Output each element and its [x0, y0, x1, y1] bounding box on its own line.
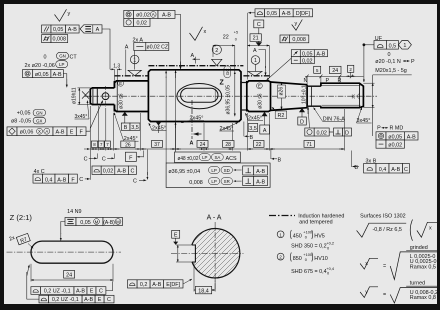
slot centerline [7, 251, 122, 253]
general roughness symbol [357, 223, 407, 237]
ø26 boxed vertical [278, 85, 286, 98]
right end ø20 dim line [363, 82, 374, 84]
datum E box [172, 230, 180, 238]
svg-text:B: B [250, 135, 254, 141]
svg-text:grinded: grinded [410, 245, 428, 251]
svg-text:A-B: A-B [84, 297, 93, 303]
shaft section ø30 right [247, 81, 271, 112]
B undercut marker (middle) [243, 122, 245, 137]
A-A centerlines [214, 222, 216, 291]
svg-text:SHD 675 = 0,4: SHD 675 = 0,4 [291, 269, 327, 275]
svg-text:A-B: A-B [162, 13, 171, 19]
relief groove 1,3 on ø30 left [114, 69, 116, 81]
svg-text:ø20 -0,1 N: ø20 -0,1 N [375, 59, 401, 65]
dim 21 boxed [250, 34, 261, 42]
svg-text:CT: CT [70, 55, 78, 61]
svg-text:+5: +5 [234, 31, 238, 35]
svg-text:SHD 350 = 0,2: SHD 350 = 0,2 [291, 244, 327, 250]
hardening zone chain line middle (zone 2) [148, 65, 243, 67]
svg-text:A: A [96, 27, 100, 33]
R2 fillet label [275, 111, 287, 119]
svg-text:ø36,95 ±0,04: ø36,95 ±0,04 [168, 169, 200, 175]
datum D box + triangle [299, 108, 305, 112]
FCF profile 0,05 A-B D[DF] (top) [255, 9, 265, 17]
slot detail outline [31, 241, 113, 263]
surface symbol y (mid top) [292, 20, 303, 31]
svg-text:A-B: A-B [407, 134, 416, 140]
svg-text:E: E [70, 130, 74, 136]
svg-text:22: 22 [223, 35, 229, 41]
surface symbol x (top middle) [190, 27, 203, 41]
datum C triangle [256, 42, 262, 46]
svg-text:A-B: A-B [391, 167, 400, 173]
datum B box left with triangle [122, 112, 128, 116]
svg-text:ø19h11: ø19h11 [72, 87, 78, 104]
shaft left journal ø19h11 [90, 88, 114, 105]
leader to ø19 journal [63, 74, 66, 87]
leader down to big section [175, 14, 181, 68]
svg-text:R2: R2 [277, 113, 284, 119]
svg-text:3,5: 3,5 [131, 125, 139, 131]
keyway notch outline [192, 245, 196, 262]
orientation plane flag A [80, 25, 102, 33]
svg-text:ø36,95 ±0,05: ø36,95 ±0,05 [225, 85, 231, 115]
svg-text:C: C [107, 297, 111, 303]
svg-text:LP: LP [202, 155, 207, 160]
svg-text:22: 22 [256, 142, 262, 148]
main centerline [84, 95, 377, 97]
svg-text:ø0,02 CZ: ø0,02 CZ [147, 45, 169, 51]
hardening zone chain line left (zone 1) [115, 75, 149, 77]
svg-text:M20x1,5 - 5g: M20x1,5 - 5g [375, 68, 406, 74]
balloon 2 [212, 45, 221, 54]
svg-text:A-B: A-B [76, 289, 85, 295]
dim 24 boxed [330, 66, 342, 73]
svg-text:ø0,05: ø0,05 [35, 72, 49, 78]
svg-text:A-B: A-B [56, 130, 65, 136]
svg-text:E: E [90, 289, 94, 295]
ø19h11 dimension line [78, 88, 80, 105]
svg-text:ø30 s6: ø30 s6 [119, 93, 125, 109]
slot vertical centerline [214, 89, 216, 103]
FCF roundness 0,02 [124, 18, 134, 26]
svg-text:A: A [125, 44, 129, 50]
balloon 1 left [130, 55, 139, 64]
svg-text:SA: SA [214, 155, 220, 160]
note 2 hardness [277, 253, 284, 260]
svg-text:ø30 s6: ø30 s6 [258, 93, 264, 109]
zone triangle middle [212, 59, 222, 65]
svg-text:2: 2 [215, 48, 218, 54]
svg-text:GX: GX [36, 118, 42, 123]
svg-text:0,05: 0,05 [267, 11, 278, 17]
svg-text:850: 850 [293, 256, 302, 262]
extension lines down [89, 106, 91, 180]
svg-text:-0,8 / Rz 6,5: -0,8 / Rz 6,5 [373, 227, 402, 233]
datum C box [254, 20, 264, 28]
shaft section ø30 left [114, 81, 148, 112]
svg-text:x: x [365, 261, 368, 267]
svg-text:x: x [429, 226, 432, 232]
leader from FCF to cross hole [86, 129, 90, 132]
cone 10 deg [271, 82, 308, 110]
svg-text:Surfaces ISO 1302: Surfaces ISO 1302 [360, 214, 406, 220]
svg-text:D: D [345, 130, 349, 136]
svg-text:C: C [102, 156, 106, 162]
svg-text:M: M [95, 219, 99, 224]
svg-text:y: y [365, 290, 368, 296]
svg-text:C: C [99, 289, 103, 295]
svg-text:ø8 -0,05: ø8 -0,05 [11, 119, 31, 125]
svg-text:C: C [257, 22, 261, 28]
svg-text:0: 0 [44, 55, 47, 61]
leader dot and line down [363, 43, 366, 46]
svg-text:and tempered: and tempered [299, 220, 332, 226]
svg-text:D[DF]: D[DF] [296, 11, 311, 17]
svg-text:SD: SD [224, 168, 230, 173]
svg-text:B: B [124, 125, 128, 131]
svg-text:Z: Z [220, 79, 225, 86]
svg-text:0,05: 0,05 [53, 27, 64, 33]
leader to ø30 right [267, 58, 292, 80]
svg-text:24: 24 [332, 68, 338, 74]
undercut groove right of big section (B) [241, 82, 247, 84]
svg-text:14 N9: 14 N9 [67, 209, 81, 215]
ø36,95 dim on big section [234, 72, 236, 117]
svg-text:0,2 UZ -0,1: 0,2 UZ -0,1 [52, 297, 79, 303]
dim 2 boxed [348, 65, 354, 72]
thread M20 body [321, 83, 364, 107]
chamfer X mark at left face [82, 91, 89, 98]
sqrt y equals [360, 287, 378, 298]
svg-text:ø0,06: ø0,06 [20, 130, 34, 136]
svg-text:GN: GN [59, 54, 66, 59]
dim lines at y 45.5 [213, 45, 235, 47]
hardening zone chain line right (zone 1) [243, 75, 270, 77]
leader from flag to shaft [102, 29, 110, 69]
svg-text:3,5: 3,5 [249, 126, 257, 132]
svg-text:ACS: ACS [226, 156, 237, 162]
surface symbol y top-left [55, 9, 67, 21]
FCF profile 0,2 UZ -0,1 A-B E C (row2) [39, 295, 49, 303]
svg-text:A: A [152, 12, 155, 17]
svg-text:A - A: A - A [207, 215, 222, 222]
svg-text:X: X [38, 129, 41, 134]
keyway slot inner [181, 88, 218, 102]
svg-text:71: 71 [306, 142, 312, 148]
datum B box with triangle (left) [156, 122, 162, 126]
svg-text:E: E [174, 233, 178, 239]
svg-text:0,008: 0,008 [292, 37, 306, 43]
leader left to extension line [248, 12, 255, 14]
ø30 s6 (E) label right [257, 83, 263, 89]
A-A circle outline [192, 229, 240, 278]
big parenthesis [410, 220, 412, 241]
keyway width extension + dim [176, 244, 192, 246]
svg-text:y: y [295, 21, 298, 27]
svg-text:0,4: 0,4 [45, 177, 53, 183]
svg-text:0,5: 0,5 [389, 43, 397, 49]
chain dim arrows [84, 148, 344, 150]
svg-text:K: K [352, 95, 356, 101]
svg-text:0: 0 [388, 52, 391, 58]
svg-text:1: 1 [403, 43, 406, 49]
FCF profile 0,02 A-B C [92, 166, 101, 174]
svg-text:M: M [116, 219, 120, 224]
svg-text:0,02: 0,02 [302, 58, 313, 64]
FCF coax ø0,05 A-B / ø0,02 (right) [376, 132, 386, 140]
shaft big section ø48 [148, 70, 241, 122]
dim 24 under slot [30, 264, 32, 282]
svg-text:A: A [263, 128, 267, 134]
dim 18,4 [193, 263, 195, 292]
svg-text:21: 21 [253, 36, 259, 42]
svg-text:C: C [130, 168, 134, 174]
svg-text:LP: LP [211, 168, 216, 173]
svg-text:0,2 UZ -0,1: 0,2 UZ -0,1 [44, 289, 71, 295]
svg-text:ø48 ±0,02: ø48 ±0,02 [178, 156, 199, 162]
svg-text:HV5: HV5 [314, 233, 325, 239]
svg-text:P: P [411, 59, 415, 65]
B marker at note box [271, 158, 277, 160]
svg-text:turned: turned [410, 281, 425, 287]
svg-text:=: = [383, 292, 386, 298]
svg-text:1,3: 1,3 [113, 64, 120, 70]
svg-text:18,4: 18,4 [198, 288, 209, 294]
svg-text:LP: LP [59, 62, 64, 67]
FCF runout 0,05 A-B over 0,02 [291, 50, 300, 57]
svg-text:0,008: 0,008 [53, 37, 67, 43]
FCF flatness-unit 0,008 (mid) [280, 35, 289, 43]
svg-text:ø0,02: ø0,02 [136, 13, 150, 19]
svg-text:26: 26 [125, 142, 131, 148]
svg-text:2x ø20 -0,06: 2x ø20 -0,06 [25, 63, 55, 69]
svg-text:0: 0 [235, 38, 237, 42]
svg-text:450: 450 [293, 233, 302, 239]
FCF concentricity ø0,05 A-B (left) [23, 70, 33, 78]
svg-text:0,02: 0,02 [103, 168, 114, 174]
FCF parallelism 0,05 A-B [42, 25, 51, 33]
svg-text:28: 28 [225, 142, 231, 148]
roughness x symbol in parens [417, 222, 439, 237]
retaining ring groove on ø19 [92, 88, 94, 105]
svg-text:B: B [278, 157, 282, 163]
svg-text:C: C [84, 156, 88, 162]
svg-text:Ramax 0,8: Ramax 0,8 [410, 295, 436, 301]
svg-text:A-B: A-B [256, 169, 265, 175]
FCF coaxiality ø0,02(A) A-B (top center) [124, 10, 134, 18]
datum A box with triangle [262, 112, 268, 116]
sqrt x equals [360, 258, 378, 269]
bottom dimension chain line [90, 148, 344, 150]
svg-text:A-B: A-B [117, 168, 126, 174]
svg-text:0,05: 0,05 [80, 220, 91, 226]
extension line of ø30 right face up [247, 13, 249, 80]
FCF profile 0,2 A-B E[DF] [128, 280, 138, 288]
svg-text:C: C [133, 179, 137, 185]
svg-text:A-B: A-B [256, 180, 265, 186]
svg-text:y: y [68, 11, 71, 17]
svg-text:A-B: A-B [57, 177, 66, 183]
svg-text:R MD: R MD [390, 126, 404, 132]
note box with ø48 / ø36,95 / 0,008 lines [166, 163, 270, 188]
section A-A cut mark [191, 100, 193, 139]
svg-text:E: E [98, 297, 102, 303]
svg-text:A: A [190, 141, 194, 147]
cross hole ø8 [102, 93, 109, 100]
note 1 hardness [277, 231, 284, 238]
FCF profile 0,2 UZ -0,1 A-B E C (row1) [31, 287, 41, 295]
svg-text:Ramax 0,5: Ramax 0,5 [410, 264, 436, 270]
F box mid [125, 152, 136, 161]
svg-text:x: x [204, 29, 207, 35]
svg-text:ø0,05: ø0,05 [388, 134, 402, 140]
svg-text:24: 24 [200, 142, 206, 148]
dim 3,5 box right [248, 124, 258, 132]
svg-text:A: A [45, 129, 48, 134]
dim 5 boxed [314, 66, 321, 73]
svg-text:R: R [338, 78, 342, 84]
svg-text:A-B: A-B [152, 282, 161, 288]
svg-text:SR: SR [224, 179, 230, 184]
svg-text:LP: LP [211, 179, 216, 184]
svg-text:A: A [191, 53, 195, 59]
svg-text:HV10: HV10 [314, 256, 328, 262]
svg-text:E[DF]: E[DF] [166, 282, 180, 288]
svg-text:0,008: 0,008 [189, 180, 203, 186]
FCF roundness 0,02 - perp D [305, 128, 314, 136]
svg-text:ø0,02: ø0,02 [388, 143, 402, 149]
svg-text:A: A [253, 48, 257, 54]
svg-text:GN: GN [36, 111, 43, 116]
svg-text:0,2: 0,2 [140, 282, 148, 288]
top black border overlay to keep crisp edges [0, 0, 440, 4]
svg-text:C: C [404, 167, 408, 173]
3x B block [350, 151, 352, 168]
legend chain line [269, 215, 295, 217]
svg-text:1: 1 [254, 58, 257, 64]
leader A down to ø30 left [134, 51, 136, 70]
svg-text:A-B: A-B [53, 72, 62, 78]
keyway pocket outer ellipse [177, 84, 222, 109]
FCF position ø0,06 (X)(A) A-B E F [7, 127, 17, 136]
svg-text:A-B: A-B [316, 51, 325, 57]
svg-text:(A-B): (A-B) [103, 220, 115, 226]
svg-text:P: P [377, 126, 381, 132]
svg-text:=: = [383, 264, 386, 270]
zone triangle right [248, 71, 262, 76]
svg-text:24: 24 [66, 273, 72, 279]
zone triangle left [128, 70, 141, 75]
svg-text:+0,05: +0,05 [17, 110, 31, 116]
svg-text:E: E [258, 84, 261, 89]
svg-text:ø26: ø26 [278, 87, 284, 96]
svg-text:A-B: A-B [68, 27, 77, 33]
thread neck DIN76 [307, 85, 321, 87]
FCF flatness-unit 0,008 [42, 35, 51, 43]
svg-text:10° ±0,1°: 10° ±0,1° [301, 83, 307, 104]
svg-text:0,02: 0,02 [316, 130, 327, 136]
svg-text:37: 37 [154, 142, 160, 148]
svg-text:B: B [355, 165, 359, 171]
svg-text:GC: GC [225, 69, 230, 76]
svg-text:A-B: A-B [282, 11, 291, 17]
ø30 s6 (E) label left [118, 80, 124, 86]
svg-text:D: D [300, 119, 304, 125]
ø26 dim line [281, 83, 283, 110]
svg-text:0,4: 0,4 [379, 167, 387, 173]
svg-text:E: E [119, 81, 122, 86]
balloon 1 right [251, 56, 260, 65]
leader to slot [61, 222, 65, 235]
svg-text:C: C [79, 177, 83, 183]
svg-text:P: P [326, 78, 330, 84]
keyway notch white [176, 245, 195, 262]
svg-text:Z (2:1): Z (2:1) [10, 213, 33, 222]
svg-text:0,02: 0,02 [136, 21, 147, 27]
dim boxes row [91, 141, 97, 147]
